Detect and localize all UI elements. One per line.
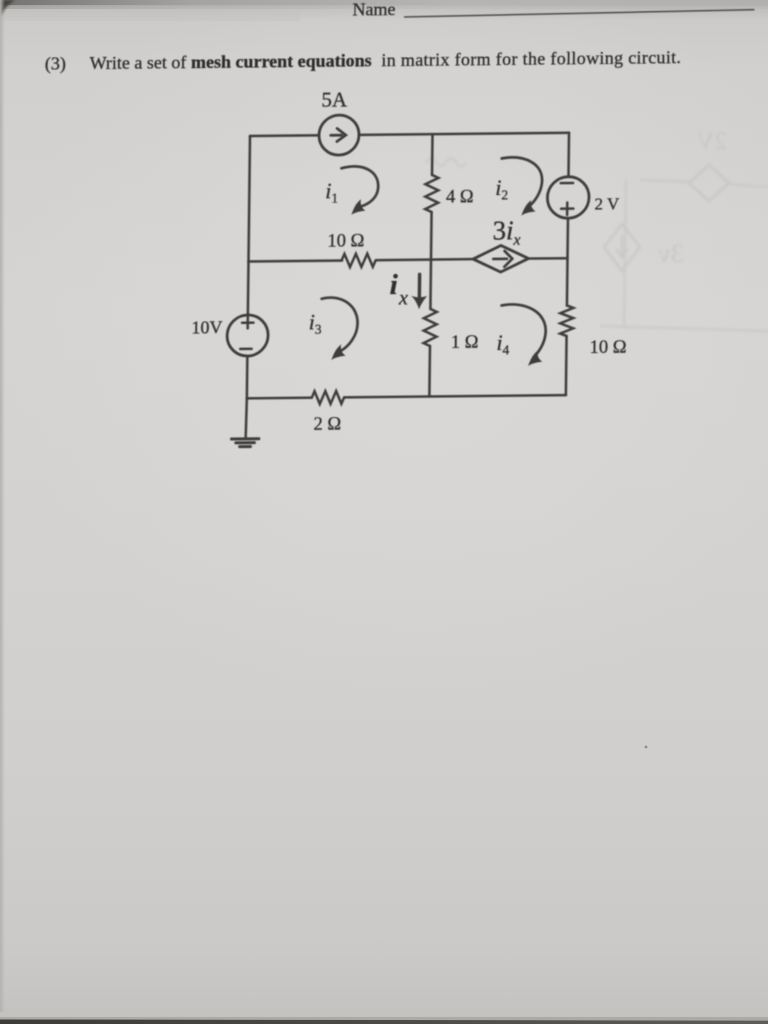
ghost diamond source xyxy=(689,165,729,201)
paper highlight xyxy=(0,0,768,710)
left vertical wire lower xyxy=(246,356,249,398)
svg-text:2 V: 2 V xyxy=(594,194,620,213)
svg-text:2V: 2V xyxy=(696,128,727,155)
mesh arrowhead i4 xyxy=(528,350,542,366)
10V plus sign xyxy=(242,317,254,329)
resistor 10 ohm horizontal xyxy=(341,254,375,268)
voltage source 10V circle xyxy=(227,315,268,356)
middle vertical wire mid xyxy=(430,212,431,309)
name underline xyxy=(404,10,754,17)
left vertical wire upper xyxy=(248,136,250,262)
svg-text:in matrix form for the followi: in matrix form for the following circuit… xyxy=(381,47,681,70)
svg-text:Write a set of: Write a set of xyxy=(89,52,186,73)
voltage source 2V circle xyxy=(547,176,589,218)
mesh arrow i4 xyxy=(501,304,546,356)
10V minus sign xyxy=(240,348,251,351)
ground bar 2 xyxy=(236,441,255,444)
svg-text:10 Ω: 10 Ω xyxy=(589,337,626,357)
ghost diamond source 2 xyxy=(604,224,640,271)
mesh arrowhead i3 xyxy=(331,344,345,360)
ghost wire bottom xyxy=(600,326,768,331)
mesh arrow i2 xyxy=(501,157,542,207)
ghost wire vertical xyxy=(624,179,626,327)
ground stem xyxy=(246,398,247,437)
current source 5A circle xyxy=(319,115,359,155)
paper speck xyxy=(645,746,648,749)
top wire right xyxy=(359,133,569,135)
2V minus sign xyxy=(561,182,573,185)
mesh arrow i3 xyxy=(321,297,358,350)
ghost resistor squiggle xyxy=(426,158,466,166)
svg-text:10 Ω: 10 Ω xyxy=(327,231,364,251)
resistor 2 ohm xyxy=(312,391,345,404)
5A arrow xyxy=(331,128,346,141)
resistor 1 ohm xyxy=(423,309,436,346)
svg-text:x: x xyxy=(398,287,408,309)
svg-text:i: i xyxy=(390,269,398,301)
mesh arrowhead i1 xyxy=(351,199,365,215)
left vertical wire mid xyxy=(247,262,250,316)
2V plus sign xyxy=(561,202,573,215)
svg-text:5A: 5A xyxy=(321,88,348,112)
mesh arrow i1 xyxy=(341,166,378,206)
resistor 4 ohm xyxy=(425,175,438,212)
right vertical wire upper xyxy=(567,133,570,177)
middle vertical wire lower xyxy=(428,346,431,396)
left dark edge xyxy=(0,0,5,1012)
mesh arrowhead i2 xyxy=(521,200,535,215)
right vertical wire lower xyxy=(565,336,568,395)
ground bar 3 xyxy=(240,445,251,448)
top dark edge strip xyxy=(0,0,768,5)
svg-text:10V: 10V xyxy=(191,317,222,337)
bottom wire left xyxy=(247,396,312,399)
top wire left xyxy=(250,134,319,137)
svg-text:1 Ω: 1 Ω xyxy=(451,333,479,353)
arrowhead ix xyxy=(411,296,427,310)
diamond arrow xyxy=(493,251,512,267)
current arrow ix on wire xyxy=(418,274,422,297)
middle wire segment B xyxy=(376,259,473,260)
ground bar 1 xyxy=(231,437,258,440)
ghost arrow inside diamond 2 xyxy=(616,235,628,257)
bottom dark strip xyxy=(0,1017,768,1020)
middle vertical wire upper xyxy=(431,134,434,175)
svg-text:mesh current equations: mesh current equations xyxy=(191,50,372,72)
ghost wire horizontal upper xyxy=(640,180,768,187)
middle wire segment A xyxy=(248,259,341,262)
right vertical wire mid xyxy=(567,218,568,305)
svg-text:(3): (3) xyxy=(45,53,66,74)
svg-text:3v: 3v xyxy=(658,239,684,268)
bottom wire right xyxy=(344,395,566,397)
svg-text:2 Ω: 2 Ω xyxy=(313,414,341,434)
middle wire segment C xyxy=(528,257,567,260)
svg-text:4 Ω: 4 Ω xyxy=(446,187,474,207)
top-left corner dark patch xyxy=(0,0,15,17)
dependent source diamond 3ix xyxy=(473,245,529,272)
ghost bleed-through marks (back side of page) xyxy=(426,128,768,331)
resistor 10 ohm right xyxy=(560,305,573,336)
svg-text:Name: Name xyxy=(352,0,395,19)
